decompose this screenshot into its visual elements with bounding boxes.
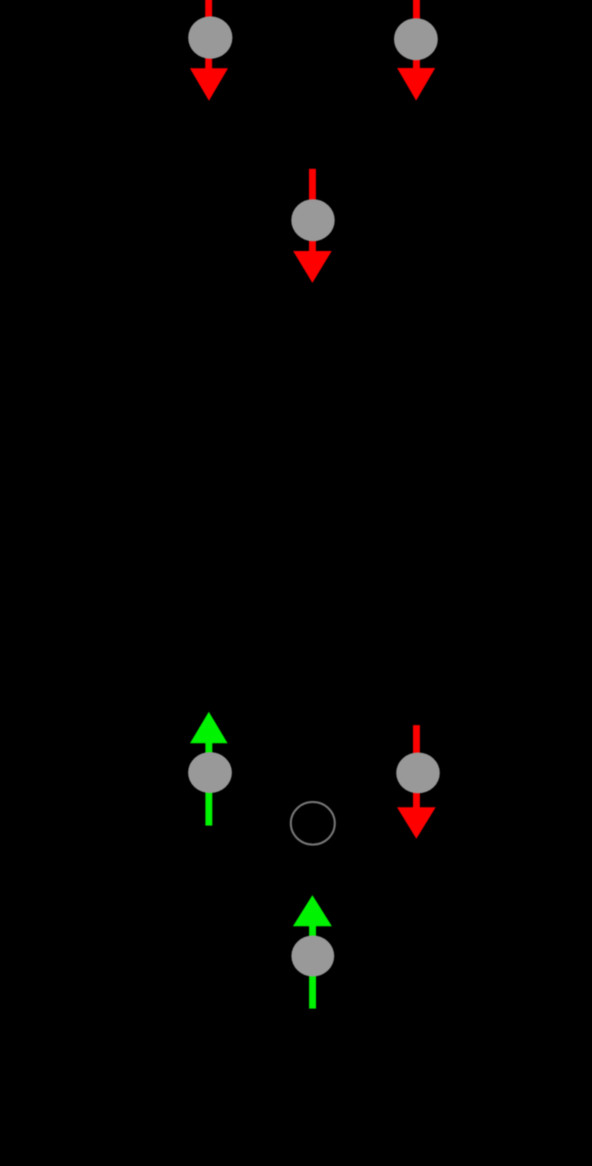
arrow A4 (green, up, lower-left) [190, 712, 228, 826]
ring (open circle marker, center) [291, 802, 335, 845]
arrow A6 (green, up, bottom-middle) [293, 895, 332, 1009]
particle P6 (gray circle, bottom-middle) [291, 936, 334, 977]
arrow A5 (red, down, lower-right) [397, 725, 436, 839]
arrow A1 (red, down, top-left, clipped at top) [190, 0, 228, 101]
particle P3 (gray circle, upper-middle) [291, 199, 334, 241]
particle P4 (gray circle, lower-left) [188, 752, 232, 793]
arrow A3 (red, down, upper-middle) [293, 169, 332, 283]
arrow A2 (red, down, top-right, clipped at top) [397, 0, 435, 101]
particle P1 (gray circle, top-left) [188, 16, 232, 58]
particle P5 (gray circle, lower-right) [396, 753, 440, 794]
particle P2 (gray circle, top-right) [394, 18, 438, 60]
